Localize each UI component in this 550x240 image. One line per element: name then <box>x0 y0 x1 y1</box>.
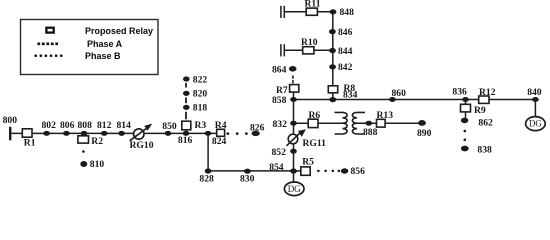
svg-text:R12: R12 <box>479 87 496 98</box>
svg-text:R1: R1 <box>24 138 36 149</box>
svg-text:852: 852 <box>272 147 287 158</box>
svg-text:838: 838 <box>477 144 492 155</box>
svg-text:R10: R10 <box>301 37 318 48</box>
svg-text:888: 888 <box>363 127 378 138</box>
svg-text:826: 826 <box>250 123 265 134</box>
svg-text:864: 864 <box>272 64 287 75</box>
svg-text:814: 814 <box>117 120 132 131</box>
svg-text:812: 812 <box>97 120 112 131</box>
svg-text:832: 832 <box>273 119 288 130</box>
svg-text:862: 862 <box>478 117 493 128</box>
svg-text:846: 846 <box>338 27 353 38</box>
svg-text:844: 844 <box>338 46 353 57</box>
svg-text:RG11: RG11 <box>303 138 327 149</box>
svg-text:R2: R2 <box>91 136 103 147</box>
svg-text:834: 834 <box>343 89 358 100</box>
svg-text:800: 800 <box>3 115 18 126</box>
svg-text:R13: R13 <box>377 110 394 121</box>
svg-text:810: 810 <box>90 159 105 170</box>
svg-text:850: 850 <box>162 121 177 132</box>
svg-text:806: 806 <box>60 120 75 131</box>
svg-text:R7: R7 <box>276 85 288 96</box>
svg-text:860: 860 <box>392 88 407 99</box>
svg-text:848: 848 <box>340 7 355 18</box>
svg-text:Proposed Relay: Proposed Relay <box>85 26 153 36</box>
svg-text:DG: DG <box>529 119 542 129</box>
svg-text:830: 830 <box>240 174 255 185</box>
svg-text:808: 808 <box>78 120 93 131</box>
svg-text:858: 858 <box>272 95 287 106</box>
svg-text:840: 840 <box>527 87 542 98</box>
svg-text:836: 836 <box>452 86 467 97</box>
svg-text:R9: R9 <box>474 105 486 116</box>
svg-text:DG: DG <box>288 184 301 194</box>
svg-text:Phase B: Phase B <box>85 51 121 61</box>
svg-text:856: 856 <box>351 166 366 177</box>
svg-text:R4: R4 <box>215 120 227 131</box>
svg-text:816: 816 <box>178 135 193 146</box>
svg-text:890: 890 <box>417 128 432 139</box>
svg-text:RG10: RG10 <box>130 140 154 151</box>
svg-text:R11: R11 <box>305 0 321 10</box>
svg-text:R6: R6 <box>309 110 321 121</box>
svg-text:802: 802 <box>42 120 57 131</box>
svg-text:824: 824 <box>212 136 227 147</box>
svg-text:Phase A: Phase A <box>87 39 123 49</box>
svg-text:R5: R5 <box>302 157 314 168</box>
svg-text:R3: R3 <box>195 120 207 131</box>
svg-text:828: 828 <box>199 173 214 184</box>
svg-text:822: 822 <box>193 74 208 85</box>
svg-text:842: 842 <box>338 62 353 73</box>
svg-text:820: 820 <box>193 89 208 100</box>
svg-text:818: 818 <box>193 103 208 114</box>
svg-text:854: 854 <box>269 162 284 173</box>
